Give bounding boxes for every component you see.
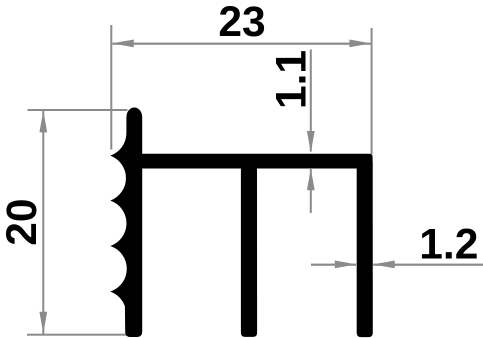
profile middle leg: [241, 162, 257, 337]
dimension line 1.1 upper segment: [310, 50, 312, 152]
arrowhead up of dimension 20: [39, 111, 47, 133]
dimension line 1.2 right segment: [373, 264, 483, 266]
extension line left of dimension 23: [110, 25, 112, 150]
extension line bottom of dimension 20: [27, 334, 127, 336]
arrowhead down of dimension 1.1: [307, 131, 315, 153]
profile right leg: [357, 162, 373, 337]
profile top arm: [140, 154, 373, 169]
profile scalloped anchoring bar: [110, 108, 142, 338]
arrowhead down of dimension 20: [39, 312, 47, 334]
arrowhead left of dimension 1.2: [373, 261, 395, 269]
svg-text:1.2: 1.2: [419, 222, 478, 269]
extension line right of dimension 23: [371, 28, 373, 154]
arrowhead up of dimension 1.1: [307, 169, 315, 191]
svg-text:20: 20: [0, 198, 46, 245]
extension line top of dimension 20: [28, 109, 128, 111]
dimension line 23: [113, 43, 371, 45]
arrowhead right of dimension 23: [349, 40, 371, 48]
arrowhead right of dimension 1.2: [335, 261, 357, 269]
dimension line 1.1 lower segment: [310, 169, 312, 213]
dimension line 1.2 left segment: [311, 264, 356, 266]
svg-text:23: 23: [218, 0, 265, 46]
dimension line 20: [42, 111, 44, 335]
arrowhead left of dimension 23: [112, 40, 134, 48]
svg-text:1.1: 1.1: [269, 50, 316, 109]
